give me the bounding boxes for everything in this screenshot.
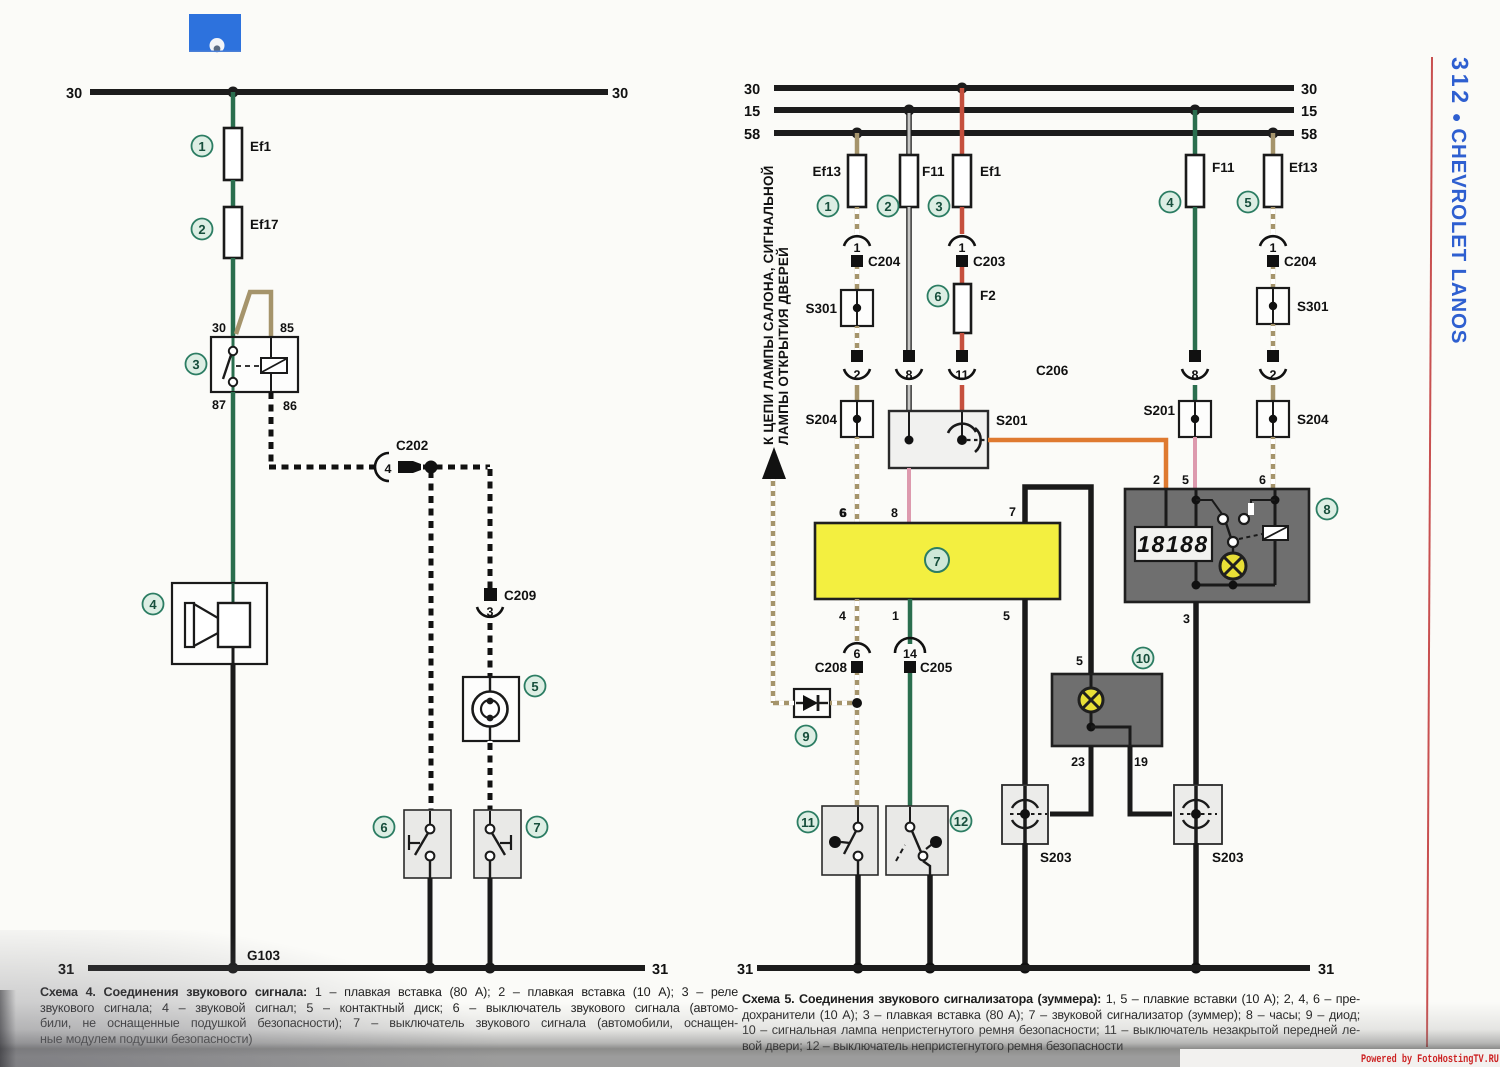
svg-text:4: 4 [385, 462, 392, 476]
wire: switch 12 to bus 31 [925, 875, 936, 974]
svg-text:F2: F2 [980, 288, 996, 303]
svg-text:86: 86 [283, 399, 297, 413]
wire: switch 11 to bus 31 [853, 875, 864, 974]
connector C208 (pin 6) [815, 643, 870, 675]
wire: switch 7 to bus 31 [485, 878, 496, 974]
svg-text:C204: C204 [868, 254, 901, 269]
wire: gray bus 15 to fuse F11 (left) [906, 110, 912, 155]
seat belt switch (component 12) [886, 806, 948, 875]
fuse Ef13 (component 5) [1264, 155, 1318, 207]
wire: orange S201 to clock pin 2 [988, 440, 1166, 489]
label 4 (circled) [1160, 192, 1181, 213]
contact disc (component 5) [463, 677, 519, 741]
splice box S201 (center) [889, 411, 1028, 468]
svg-text:30: 30 [612, 86, 628, 102]
wire: S203 left down to bus 31 [1020, 843, 1031, 974]
connector pin 2 (right) [1260, 350, 1286, 382]
wire: green F11 down to connector pin 8 (right) [1193, 207, 1198, 350]
svg-text:S301: S301 [805, 301, 837, 316]
wire: gray pin8 into S201 [906, 385, 912, 412]
svg-text:31: 31 [652, 962, 668, 978]
wire: dashed junction down to horn switch 6 [429, 467, 434, 810]
svg-text:10: 10 [1136, 651, 1150, 666]
bus 31 (scheme 5) [737, 962, 1334, 978]
wire: dashed (bk/wh) relay pin 86 down to C202 [269, 392, 377, 467]
svg-text:C205: C205 [920, 660, 953, 675]
svg-text:312●CHEVROLET LANOS: 312●CHEVROLET LANOS [1447, 57, 1473, 344]
svg-text:30: 30 [744, 82, 760, 98]
svg-text:3: 3 [1183, 612, 1190, 626]
svg-text:30: 30 [66, 86, 82, 102]
fuse Ef17 [224, 207, 279, 258]
svg-text:Ef13: Ef13 [1289, 160, 1318, 175]
wire: black buzzer pin 5 down to S203 (left) [1022, 599, 1028, 786]
svg-text:1: 1 [854, 241, 861, 255]
svg-text:ЛАМПЫ ОТКРЫТИЯ ДВЕРЕЙ: ЛАМПЫ ОТКРЫТИЯ ДВЕРЕЙ [775, 247, 791, 445]
wire: gray F11 down to connector pin 8 [906, 207, 912, 350]
svg-text:5: 5 [1182, 473, 1189, 487]
label 9 (circled) [796, 726, 817, 747]
connector C202 (pin 4) [375, 438, 428, 481]
page margin red rule [1427, 57, 1432, 1047]
svg-text:3: 3 [935, 199, 942, 214]
svg-text:C209: C209 [504, 588, 536, 603]
svg-text:Ef1: Ef1 [980, 164, 1002, 179]
wire: tan pin2 to splice S204 [855, 385, 860, 403]
fuse F11 (component 4) [1186, 155, 1235, 207]
wire: green relay pin 87 to horn [231, 392, 236, 584]
wire: red F2 to connector pin 11 [960, 333, 965, 350]
node: bus 58 tap for Ef13 (5) [1268, 128, 1279, 139]
seat belt warning lamp (component 10, gray box) [1052, 674, 1162, 746]
svg-text:7: 7 [533, 820, 540, 835]
wire: black lamp pin 23 to S203 (left) [1050, 746, 1091, 814]
buzzer / sound annunciator (component 7, yellow) [815, 505, 1060, 623]
svg-text:4: 4 [1166, 195, 1174, 210]
wire: tan pin2 to splice S204 (right) [1271, 385, 1276, 403]
fuse Ef1 (component 3) [953, 155, 1002, 207]
svg-text:C208: C208 [815, 660, 848, 675]
connector pin 8 (left) [896, 350, 922, 382]
wire: dashed C202 to junction and onward right [421, 465, 490, 470]
svg-text:9: 9 [802, 729, 809, 744]
svg-text:F11: F11 [1212, 160, 1235, 175]
splice S301 (left) [805, 290, 873, 326]
label 2 (circled) [878, 196, 899, 217]
horn / sound signal (component 4) [172, 583, 267, 664]
connector C204 (pin 1, right) [1260, 236, 1317, 269]
svg-text:18188: 18188 [1137, 531, 1208, 557]
svg-text:23: 23 [1071, 755, 1085, 769]
connector pin 2 (left) [844, 350, 870, 382]
svg-text:C206: C206 [1036, 363, 1069, 378]
door ajar switch (component 11) [822, 806, 878, 875]
label 6 (circled) [374, 817, 395, 838]
svg-text:1: 1 [959, 241, 966, 255]
svg-text:6: 6 [934, 289, 941, 304]
wire: tan Ef13 to connector C204 [855, 207, 860, 234]
label 10 (circled) [1133, 648, 1154, 669]
label 3 (circled) [929, 196, 950, 217]
relay K of horn (component 3) [211, 321, 298, 413]
wire: red Ef1 to connector C203 [960, 207, 965, 234]
label 11 (circled) [798, 812, 819, 833]
splice S201 (right small box) [1143, 401, 1211, 437]
svg-text:S203: S203 [1040, 850, 1072, 865]
svg-text:2: 2 [198, 222, 205, 237]
fuse Ef13 (component 1) [812, 155, 866, 207]
wire: red C203 to fuse F2 [960, 267, 965, 286]
wire: tan dashed diode to junction [830, 701, 852, 706]
svg-text:6: 6 [854, 647, 861, 661]
wire: tan C208 down to door switch 11 [855, 673, 860, 808]
arrow: to interior lamp / door ajar lamp circuit [762, 447, 786, 479]
wire: green buzzer pin 1 to connector C205 [908, 599, 913, 644]
bus 30 (scheme 5) [744, 82, 1317, 98]
svg-text:7: 7 [1009, 505, 1016, 519]
label C206 (connector name) [1036, 363, 1069, 378]
page margin header: 312 CHEVROLET LANOS [1447, 57, 1473, 344]
node: bus 15 tap for F11 (2) [904, 105, 915, 116]
wire: red pin 11 into S201 [960, 385, 965, 412]
wire: tan jumper to relay pin 85 [236, 292, 271, 337]
horn icon (blue page marker) [189, 14, 241, 53]
wire: green bus 15 to fuse F11 (right) [1193, 110, 1198, 155]
node: bus 30 / Ef1 tap junction [228, 87, 239, 98]
wire: dashed C209 to contact disc [488, 622, 493, 677]
wire: green Ef1 to Ef17 [231, 180, 236, 207]
svg-text:Ef13: Ef13 [812, 164, 841, 179]
svg-text:6: 6 [1259, 473, 1266, 487]
label 7 (circled, on buzzer) [925, 548, 949, 572]
svg-text:58: 58 [744, 127, 760, 143]
svg-text:C204: C204 [1284, 254, 1317, 269]
svg-text:5: 5 [1244, 195, 1251, 210]
label 4 (circled) [143, 594, 164, 615]
wire: green pin8 to splice S201 (right) [1193, 385, 1198, 403]
svg-text:19: 19 [1134, 755, 1148, 769]
label 8 (circled) [1317, 499, 1338, 520]
svg-text:8: 8 [891, 506, 898, 520]
svg-text:11: 11 [801, 815, 815, 830]
wire: black clock pin 3 down to S203 (right) [1183, 602, 1196, 786]
svg-text:6: 6 [380, 820, 387, 835]
diode (component 9) [794, 689, 830, 717]
svg-text:5: 5 [1076, 654, 1083, 668]
svg-text:31: 31 [1318, 962, 1334, 978]
wire: black lamp pin 19 to S203 (right) [1130, 746, 1172, 814]
label 12 (circled) [951, 811, 972, 832]
svg-text:К ЦЕПИ ЛАМПЫ САЛОНА, СИГНАЛЬНО: К ЦЕПИ ЛАМПЫ САЛОНА, СИГНАЛЬНОЙ [760, 165, 776, 445]
node: bus 15 tap for F11 (4) [1190, 105, 1201, 116]
svg-text:2: 2 [1153, 473, 1160, 487]
svg-text:15: 15 [1301, 104, 1317, 120]
svg-text:5: 5 [1003, 609, 1010, 623]
wire: tan C204 to splice S301 (right) [1271, 267, 1276, 290]
svg-text:30: 30 [1301, 82, 1317, 98]
horn switch (component 6) [404, 810, 451, 878]
svg-text:31: 31 [58, 962, 74, 978]
fuse F2 (component 6) [954, 284, 996, 333]
fuse Ef1 [224, 128, 272, 180]
svg-text:S203: S203 [1212, 850, 1244, 865]
svg-text:85: 85 [280, 321, 294, 335]
wire: green C205 down to belt switch 12 [908, 673, 913, 808]
label 1 (circled) [818, 196, 839, 217]
wire: green from bus 30 to fuse Ef1 [231, 92, 236, 128]
label 5 (circled) [525, 676, 546, 697]
svg-text:8: 8 [1323, 502, 1330, 517]
svg-text:1: 1 [892, 609, 899, 623]
svg-text:Ef1: Ef1 [250, 139, 272, 154]
svg-text:87: 87 [212, 398, 226, 412]
svg-text:F11: F11 [922, 164, 945, 179]
svg-text:30: 30 [212, 321, 226, 335]
svg-text:12: 12 [954, 814, 968, 829]
wire: tan S204 to clock pin 6 [1259, 437, 1273, 489]
wire: tan S301 to connector pin 2 (right) [1271, 324, 1276, 350]
wire: tan dashed diode left and up to circuit arrow [773, 478, 794, 703]
bus 31 (scheme 4) [58, 962, 668, 978]
wire: red bus 30 to fuse Ef1 [960, 88, 965, 155]
bus 30 (scheme 4) [66, 86, 628, 102]
wire: tan bus 58 to fuse Ef13 (left) [855, 133, 860, 155]
node: C202 branch junction [425, 461, 438, 474]
label 7 (circled) [527, 817, 548, 838]
wire: tan C204 to splice S301 [855, 267, 860, 292]
wire: switch 6 to bus 31 [425, 878, 436, 974]
connector pin 8 (right) [1182, 350, 1208, 382]
svg-text:15: 15 [744, 104, 760, 120]
connector pin 11 (left) [949, 350, 975, 382]
connector C209 (pin 3) [477, 588, 536, 619]
label 5 (circled) [1238, 192, 1259, 213]
svg-text:1: 1 [1270, 241, 1277, 255]
fuse F11 (component 2) [900, 155, 945, 207]
svg-text:58: 58 [1301, 127, 1317, 143]
wire: black buzzer pin 7 up-over-down to lamp box pin 5 [1025, 487, 1091, 674]
wire: tan S204 to buzzer pin 6 [840, 437, 857, 523]
label 6 (circled) [928, 286, 949, 307]
wire: green Ef17 to relay pin 30 [231, 258, 236, 340]
label 3 (circled) [186, 354, 207, 375]
connector C205 (pin 14) [895, 638, 953, 675]
svg-text:5: 5 [531, 679, 538, 694]
clock (component 8, gray box) [1125, 473, 1309, 602]
svg-text:Ef17: Ef17 [250, 217, 279, 232]
wire: tan buzzer pin 4 to connector C208 [855, 599, 860, 644]
svg-text:G103: G103 [247, 948, 281, 963]
connector C204 (pin 1) [844, 236, 901, 269]
svg-text:S204: S204 [805, 412, 837, 427]
label 1 (circled) [192, 136, 213, 157]
node: bus 30 tap for Ef1 (3) [957, 83, 968, 94]
splice S203 (right) [1174, 785, 1244, 865]
node G103 [228, 948, 281, 974]
wire: pink S201 to clock pin 5 [1182, 437, 1195, 489]
svg-text:7: 7 [933, 554, 940, 569]
wire: S203 right down to bus 31 [1191, 843, 1202, 974]
svg-text:6: 6 [839, 506, 846, 520]
label 2 (circled) [192, 219, 213, 240]
svg-text:S204: S204 [1297, 412, 1329, 427]
connector C203 (pin 1) [949, 236, 1006, 269]
splice S301 (right) [1257, 288, 1329, 324]
wire: tan bus 58 to fuse Ef13 (right) [1271, 133, 1276, 155]
horn switch airbag cars (component 7) [474, 810, 521, 878]
svg-text:31: 31 [737, 962, 753, 978]
wire: pink S201 to buzzer pin 8 [891, 468, 909, 523]
svg-text:2: 2 [884, 199, 891, 214]
splice S204 (right) [1257, 401, 1329, 437]
svg-text:C203: C203 [973, 254, 1006, 269]
svg-text:3: 3 [192, 357, 199, 372]
svg-text:S201: S201 [1143, 403, 1175, 418]
svg-text:1: 1 [198, 139, 205, 154]
splice S203 (left) [1002, 785, 1072, 865]
svg-text:14: 14 [903, 647, 917, 661]
bus 58 (scheme 5) [744, 127, 1317, 143]
svg-text:4: 4 [149, 597, 157, 612]
svg-text:1: 1 [824, 199, 831, 214]
svg-text:C202: C202 [396, 438, 428, 453]
node: diode tap junction on tan wire [852, 698, 862, 708]
wire: tan S301 to connector pin 2 [855, 326, 860, 350]
svg-text:S201: S201 [996, 413, 1028, 428]
wire: tan Ef13 to connector C204 (right) [1271, 207, 1276, 234]
svg-text:S301: S301 [1297, 299, 1329, 314]
node: bus 58 tap for Ef13 (1) [852, 128, 863, 139]
wire: dashed junction down to C209 [488, 467, 493, 588]
splice S204 (left) [805, 401, 873, 437]
wire: dashed contact disc to switch 7 [488, 741, 493, 810]
bus 15 (scheme 5) [744, 104, 1317, 120]
svg-text:4: 4 [839, 609, 846, 623]
vertical note text: to interior lamp circuits [760, 165, 791, 445]
wire: black horn to bus 31 [231, 664, 236, 968]
